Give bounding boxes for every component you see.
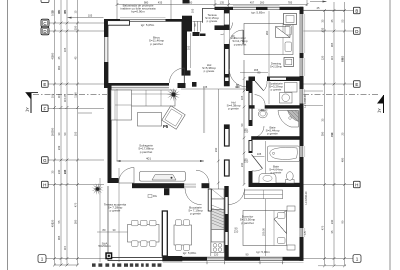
dim line bottom right short [318,264,346,267]
wall right exterior [300,7,304,261]
window right wall dressing [300,58,305,76]
wardrobe bedroom1 corner [284,14,297,25]
stove hatched [212,205,225,230]
wall living west foot [108,178,119,183]
door size labels small [231,34,265,164]
bed 1 [244,24,293,55]
svg-text:105: 105 [203,85,208,89]
svg-text:105: 105 [88,14,93,18]
window right wall bedroom1 [300,14,305,53]
wall bottom exterior [163,257,304,261]
svg-text:470: 470 [321,225,325,230]
svg-text:390: 390 [320,131,324,136]
svg-text:DormitorS=13,50mpp parchet: DormitorS=13,50mpp parchet [240,215,256,225]
svg-text:401: 401 [146,156,151,160]
grid bubble G left [42,157,49,164]
door leaf spalatorie [255,81,264,91]
interior dim line bedroom2 [261,199,265,256]
hedge marks bottom [92,263,161,266]
floor drain mark RG [148,194,157,198]
svg-text:105: 105 [186,45,190,50]
dim ticks bottom left [53,264,79,267]
wall bedroom1 top [215,7,304,10]
door arc corridor entrance [229,69,247,87]
svg-text:P5: P5 [163,124,169,129]
svg-text:105: 105 [50,93,54,98]
svg-text:130: 130 [63,169,67,174]
wall bath1 south [248,136,299,140]
svg-text:H: H [355,183,358,188]
grid bubble F left [42,105,49,112]
grid bubble D right [354,28,361,35]
grid bubble 1 bottom-left [38,255,46,263]
dim line terasa horizontal [97,228,128,232]
svg-text:365: 365 [340,55,344,60]
svg-text:tgr: 5,85m: tgr: 5,85m [251,11,265,15]
sink bath2 [259,174,276,184]
svg-text:105: 105 [73,131,77,136]
svg-text:E: E [43,82,46,87]
door arc bath2 [252,169,263,172]
svg-text:105: 105 [240,95,244,100]
window edge ticks bottom wall [207,261,283,264]
svg-text:D: D [355,29,358,34]
door gap bedroom1 [224,30,229,44]
wall kitchen west L [162,211,182,261]
extension line top d [306,0,308,6]
grid line bottom leader left [46,258,110,260]
toilet bath2 [286,172,295,183]
wall corridor west mid [225,125,230,146]
sideboard [140,172,186,182]
svg-text:1160: 1160 [74,92,78,98]
svg-text:1: 1 [356,256,359,261]
interior dim line hall-kitchen vertical [214,89,220,200]
wall birou left [104,19,108,88]
door size label hall [235,83,240,89]
wall living north band [108,83,186,88]
grid bubble B right [354,7,361,14]
page border left [7,0,9,270]
svg-text:RG: RG [153,194,157,198]
window sill birou top [120,17,166,19]
grid bubble C left [41,19,49,27]
grid line G left leader [47,159,104,161]
wall notch hall column [186,27,193,32]
dimension line left v3 [66,0,68,265]
door arc spalatorie [264,81,268,91]
svg-text:210: 210 [235,85,240,89]
wall hall north b [200,34,206,37]
door gap dressing south [255,105,265,109]
door arc birou [169,68,184,83]
bathtub [268,146,300,162]
window right wall bath [300,146,305,157]
window birou left W2 [104,37,108,62]
svg-text:785: 785 [288,1,293,5]
wall birou top [104,19,187,22]
extension line right wall b [304,105,323,107]
dim line hall right of birou [186,23,197,68]
svg-text:480: 480 [341,157,345,162]
dim ticks top line [116,3,309,6]
svg-text:S=2,59mp: S=2,59mp [270,64,282,68]
dimension line left v2 [60,0,62,265]
wall hall west upper [225,9,230,86]
terasa north rail [202,8,225,10]
svg-text:SufragerieS=17,88mpp parchet: SufragerieS=17,88mpp parchet [138,144,154,154]
dimension line top-right [303,1,345,11]
svg-text:210: 210 [244,130,249,134]
wall corridor west stub [225,160,230,176]
svg-text:135: 135 [220,1,225,5]
plant terrace [91,183,103,195]
section cut line left dashed [33,94,107,96]
svg-text:E: E [355,82,358,87]
svg-text:360: 360 [57,65,61,70]
door gap front entry [224,13,229,25]
fridge [212,189,225,210]
svg-text:105: 105 [191,8,195,13]
door arc bath1 [253,126,265,138]
window divider band gray part [184,184,196,188]
page border right [389,0,391,270]
interior dim line hall [181,85,248,89]
wall bedroom2 top right part [249,183,300,187]
label tgr room A [270,62,282,69]
window right wall bedroom2 L5 [300,228,305,237]
washing machine [280,93,293,104]
door arc bedroom2 [229,189,245,205]
dimension line right v3 [344,2,346,265]
shower bath1 [278,111,299,128]
svg-text:470: 470 [74,202,78,207]
extension line sufragerie left [116,89,118,161]
door gap bath2 [248,153,253,171]
nightstand bedroom2 top [287,206,295,211]
wall bedroom1 south [249,77,300,82]
door gap bath1 [248,126,253,138]
svg-text:230: 230 [214,147,218,152]
door arc dressing [255,95,266,106]
wall terasa south block [215,25,226,30]
interior dim line bedroom1 horizontal [240,68,268,72]
window right wall spalatorie [300,89,305,104]
svg-text:210: 210 [244,160,249,164]
extension line top e [170,0,172,19]
svg-text:240: 240 [57,169,61,174]
svg-text:120: 120 [320,55,324,60]
section marker right [377,95,384,113]
grid bubble E right [354,81,361,88]
svg-text:SpalatorieS=3,29mpp gresie: SpalatorieS=3,29mpp gresie [269,82,283,92]
dining table [128,220,160,246]
door arc sufragerie terrace [119,168,135,184]
wall pier hall west [192,82,197,87]
wall block entry left [182,16,192,30]
svg-text:115: 115 [330,55,334,60]
svg-text:tgr: 5,08m: tgr: 5,08m [183,251,197,255]
dimension line top-center [117,4,307,6]
wall divider stub right of kitchen door [202,183,210,188]
extension line top b [214,0,216,7]
door gap bedroom2 top [229,183,244,189]
nightstand bedroom2 bottom [287,245,295,250]
svg-text:L4 180/120: L4 180/120 [304,191,308,205]
sofa sectional [111,90,175,120]
window living north band [112,86,170,88]
dimension line bottom-left ticks [55,264,78,266]
grid line E right leader [303,83,353,85]
window sill bedroom1 top [233,5,280,7]
terasa acoperita west edge [107,186,109,261]
grid bubble 1 bottom-right [353,255,361,263]
svg-text:260: 260 [188,1,193,5]
svg-text:C: C [43,21,46,26]
wall birou right [182,19,188,73]
wardrobe bedroom2 [245,190,283,199]
door arc kitchen lower [185,188,202,205]
interior dim line bedroom1 vertical [265,11,269,104]
svg-text:D: D [43,29,46,34]
svg-text:390: 390 [51,127,55,132]
grid line D right leader [303,30,353,32]
sink bath1 [258,110,268,118]
grid bubble H right [354,181,361,188]
grid bubble top-left cut [41,0,49,3]
terasa acoperita south edge [108,257,163,260]
kitchen table [174,220,192,251]
svg-text:260: 260 [265,30,269,35]
grid line C left leader [47,22,104,24]
svg-text:105: 105 [257,152,262,156]
wall cap birou right bottom [182,70,191,75]
svg-text:F: F [43,107,46,112]
svg-text:120: 120 [214,253,219,257]
dim line terasa vertical b [118,168,120,262]
wall dressing south [249,105,300,108]
partition track hall [203,88,205,133]
cabinet spalatorie [285,83,298,93]
dimension line left v4 [77,0,79,265]
wall corridor east [249,77,253,187]
grid line D left leader [47,30,104,32]
svg-text:tgr: 5,90m: tgr: 5,90m [256,250,270,254]
grid bubble D left [41,27,49,35]
drain square SdA [105,252,112,259]
window bedroom1 top W3 [233,7,256,10]
svg-text:250,50: 250,50 [261,227,265,235]
wall divider sufragerie band [132,183,184,188]
dimension line right v2 [333,2,335,265]
grid line H left leader [47,184,104,186]
wall kitchen east [224,186,228,261]
interior dim line corridor vertical [240,60,246,186]
wall notch corridor top [246,81,249,92]
door size label bedroom2 [234,227,239,234]
dimension line top-left arrow [68,17,104,19]
kitchen counter line [210,189,212,256]
svg-text:tgr: 5,05m: tgr: 5,05m [141,23,155,27]
dim segment near F [78,112,92,114]
window kitchen bottom [207,257,224,261]
window sill bottom bedroom2 [258,261,285,263]
grid line bottom leader right [303,258,353,260]
wall kitchen west stub upper [164,188,169,195]
svg-text:365: 365 [330,42,334,47]
svg-text:B: B [355,9,358,14]
door gap spalatorie [255,76,267,81]
armchair rotated [162,106,185,129]
svg-text:239: 239 [57,145,61,150]
svg-text:980: 980 [144,1,149,5]
dimension line right v1 [324,10,326,265]
entry steps [193,21,203,31]
svg-text:260: 260 [73,219,77,224]
extension line top a [116,0,118,19]
svg-text:365: 365 [63,9,67,14]
svg-text:365: 365 [57,235,61,240]
dim ticks grid rows left [53,22,79,260]
svg-text:120: 120 [50,219,54,224]
door arc bedroom1 [229,30,243,44]
door leaf bedroom1 [242,30,244,44]
door leaf bath2 [252,155,263,169]
svg-text:260: 260 [50,131,54,136]
window bedroom2 bottom [260,257,283,261]
svg-text:115: 115 [57,93,61,98]
svg-text:390: 390 [57,9,61,14]
door leaf birou [183,68,185,83]
svg-text:105: 105 [63,47,67,52]
dim line terasa vertical a [99,178,101,262]
door gap living north [169,83,178,88]
svg-text:240: 240 [330,219,334,224]
window bedroom1 top W4 [268,7,280,10]
svg-text:L5: L5 [303,231,307,235]
plant [167,88,181,102]
grid line B right leader [303,10,353,12]
grid bubble E left [42,81,49,88]
section marker left [25,93,39,114]
kitchen cupboard column [208,189,211,211]
dim numbers top line [144,1,293,5]
svg-text:1: 1 [41,256,44,261]
sufragerie dim line [117,156,205,162]
dim numbers clutter right lines [320,19,344,224]
extension line right wall a [304,90,323,92]
coffee table [138,113,162,127]
grid line F left leader [47,107,104,109]
wall living west [108,83,112,178]
svg-text:115: 115 [63,245,67,250]
section cut line right dashed [303,94,378,96]
terasa west rail [202,9,204,23]
window sill bottom kitchen [163,261,304,263]
svg-text:210: 210 [231,36,236,40]
dim ticks grid rows right [323,9,346,260]
bed 2 [243,211,287,246]
svg-text:210: 210 [234,229,239,233]
svg-text:H: H [43,183,46,188]
svg-text:435: 435 [158,1,163,5]
svg-text:G: G [43,158,47,163]
window birou top W1 [120,19,166,22]
dim numbers clutter left lines [50,9,77,224]
wall hall north a [193,32,200,36]
nightstand bedroom1 [284,58,294,67]
sink burners [211,242,224,253]
dimension line left v1 [54,0,56,265]
extension line top c [228,0,230,8]
grid line H right leader [303,184,353,186]
svg-text:260: 260 [51,52,55,57]
svg-text:457: 457 [250,1,255,5]
grid bubble H left [42,181,49,188]
window interior sill box birou [108,21,130,26]
door arc kitchen upper [196,170,209,183]
svg-text:260: 260 [260,1,265,5]
grid line E left leader [47,83,104,85]
door arc front entry [221,23,233,35]
counter mid [212,230,225,243]
svg-text:250: 250 [74,25,78,30]
interior dim line bath2 [254,141,266,183]
wall block top edge [183,0,190,4]
